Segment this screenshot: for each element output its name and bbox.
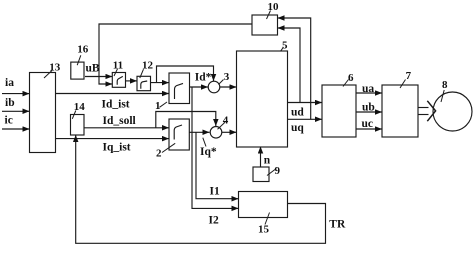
svg-text:3: 3 xyxy=(224,71,230,83)
svg-text:Id_soll: Id_soll xyxy=(103,115,136,127)
svg-text:11: 11 xyxy=(113,60,123,72)
svg-text:ub: ub xyxy=(362,102,375,114)
svg-text:uq: uq xyxy=(291,122,304,134)
svg-text:ib: ib xyxy=(5,97,15,109)
svg-text:9: 9 xyxy=(275,165,281,177)
svg-text:5: 5 xyxy=(282,39,288,51)
svg-text:Iq*: Iq* xyxy=(200,146,217,158)
svg-text:6: 6 xyxy=(348,72,354,84)
svg-text:TR: TR xyxy=(329,219,346,231)
svg-text:8: 8 xyxy=(442,79,448,91)
svg-text:4: 4 xyxy=(223,115,229,127)
svg-text:uB: uB xyxy=(86,63,100,75)
svg-text:I2: I2 xyxy=(209,215,219,227)
svg-text:I1: I1 xyxy=(210,186,220,198)
svg-text:2: 2 xyxy=(156,148,162,160)
svg-text:Id_ist: Id_ist xyxy=(102,99,130,111)
svg-text:14: 14 xyxy=(74,101,86,113)
svg-text:16: 16 xyxy=(77,44,89,56)
svg-text:7: 7 xyxy=(406,70,412,82)
svg-text:ud: ud xyxy=(291,107,304,119)
svg-text:ic: ic xyxy=(5,115,13,127)
svg-text:ua: ua xyxy=(362,83,374,95)
svg-text:Id*: Id* xyxy=(195,72,212,84)
svg-text:ia: ia xyxy=(5,77,14,89)
svg-text:12: 12 xyxy=(142,60,154,72)
svg-text:15: 15 xyxy=(258,224,270,236)
svg-text:1: 1 xyxy=(155,100,161,112)
svg-text:10: 10 xyxy=(268,1,280,13)
svg-text:Iq_ist: Iq_ist xyxy=(103,142,131,154)
svg-text:n: n xyxy=(264,155,271,167)
svg-text:uc: uc xyxy=(362,118,374,130)
svg-text:13: 13 xyxy=(49,61,61,73)
